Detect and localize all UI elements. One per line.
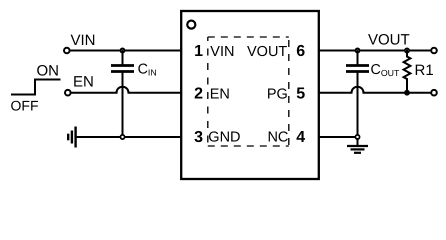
svg-text:PG: PG bbox=[267, 86, 288, 102]
wire VIN bbox=[71, 50, 181, 52]
svg-text:4: 4 bbox=[296, 129, 305, 146]
svg-text:NC: NC bbox=[267, 130, 288, 146]
ground left bbox=[68, 127, 75, 148]
ground right bbox=[347, 146, 368, 153]
svg-text:EN: EN bbox=[73, 74, 94, 91]
svg-text:1: 1 bbox=[194, 43, 203, 60]
svg-text:VOUT: VOUT bbox=[368, 31, 410, 48]
wire to ground right bbox=[357, 139, 359, 146]
junction VOUT / R1 bbox=[405, 48, 409, 52]
wire NC bbox=[319, 136, 358, 138]
wire EN (hops over CIN line) bbox=[72, 87, 181, 93]
svg-text:5: 5 bbox=[296, 86, 305, 103]
svg-text:ON: ON bbox=[37, 63, 60, 80]
junction VIN / CIN bbox=[120, 48, 124, 52]
svg-text:3: 3 bbox=[194, 129, 203, 146]
terminal VIN bbox=[64, 48, 70, 54]
wire PG (hops over COUT line) bbox=[319, 87, 431, 93]
svg-text:VIN: VIN bbox=[71, 32, 96, 49]
capacitor COUT bbox=[346, 51, 369, 138]
terminal PG bbox=[431, 90, 437, 96]
terminal VOUT bbox=[431, 48, 437, 54]
svg-text:6: 6 bbox=[296, 43, 305, 60]
EN control waveform ON/OFF bbox=[11, 63, 60, 114]
junction VOUT / COUT bbox=[355, 48, 359, 52]
junction PG / R1 bbox=[404, 90, 410, 96]
wire VOUT bbox=[319, 50, 431, 52]
svg-text:VIN: VIN bbox=[210, 44, 234, 60]
resistor R1 bbox=[404, 51, 411, 93]
op IC U1 package bbox=[181, 11, 319, 179]
terminal EN bbox=[65, 90, 71, 96]
svg-text:EN: EN bbox=[210, 86, 230, 102]
capacitor CIN bbox=[111, 51, 134, 138]
svg-text:GND: GND bbox=[208, 130, 240, 146]
junction GND / CIN bbox=[120, 135, 124, 139]
svg-text:OFF: OFF bbox=[11, 97, 39, 113]
junction NC / COUT / ground bbox=[355, 135, 359, 139]
wire GND bbox=[77, 136, 181, 138]
U1 pin-1 indicator bbox=[187, 21, 195, 29]
U1 inner dashed outline bbox=[208, 37, 289, 146]
svg-text:VOUT: VOUT bbox=[247, 44, 287, 60]
svg-text:R1: R1 bbox=[415, 62, 434, 79]
svg-text:2: 2 bbox=[194, 86, 203, 103]
